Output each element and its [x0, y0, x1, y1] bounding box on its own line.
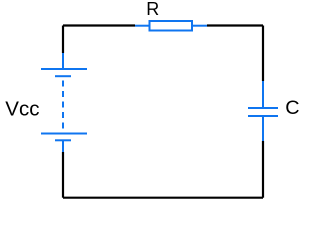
- svg-text:Vcc: Vcc: [5, 98, 39, 121]
- svg-text:R: R: [146, 0, 159, 19]
- svg-text:C: C: [285, 97, 299, 119]
